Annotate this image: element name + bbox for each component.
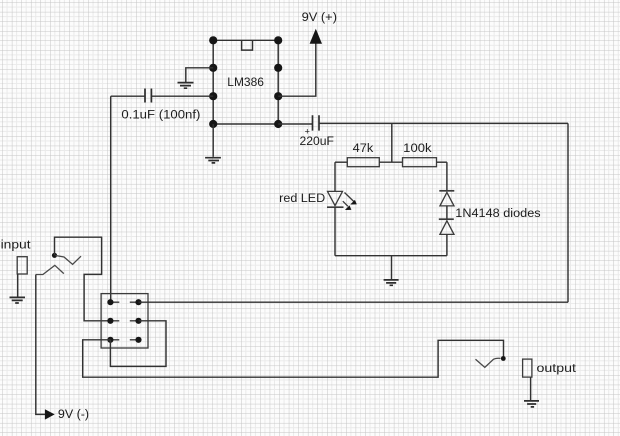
input switch lever (lower) <box>36 265 64 274</box>
wire clipping network bottom <box>335 255 447 257</box>
S1 contact dashes <box>110 302 138 340</box>
svg-text:47k: 47k <box>353 141 374 155</box>
output jack J2 <box>523 359 532 377</box>
wire input switch loop <box>55 237 111 321</box>
bypass switch S1 body <box>101 294 148 348</box>
LED D1 red LED symbol <box>327 191 344 207</box>
pin 6 (right) <box>274 92 282 100</box>
wire LED branch top <box>335 161 347 163</box>
pin 5 (right bottom) <box>274 120 282 128</box>
ground (clipping network) <box>384 280 399 285</box>
wire pin4 to ground <box>212 124 214 157</box>
wire output jack sleeve to ground <box>530 377 532 400</box>
LED light arrow 2 <box>343 201 352 210</box>
input switch contact node <box>52 253 57 258</box>
S1 pole 1 left <box>107 299 113 305</box>
svg-text:input: input <box>1 238 32 252</box>
wire between resistors <box>379 161 402 163</box>
svg-text:100k: 100k <box>403 141 432 155</box>
wire negative rail down <box>36 275 45 415</box>
LED light arrow 1 <box>345 193 357 205</box>
output switch contact node <box>501 356 506 361</box>
svg-text:LM386: LM386 <box>227 75 264 89</box>
pin 7 (right) <box>274 64 282 72</box>
wire cap to long vertical <box>111 95 145 97</box>
wire pin6 to 9V <box>278 43 316 96</box>
resistor R2 100k <box>403 158 437 167</box>
wire pin5 to output cap <box>278 123 312 125</box>
input jack J1 <box>17 257 27 274</box>
resistor R1 47k <box>347 158 379 167</box>
S1 pole 3 right <box>135 337 141 343</box>
wire long vertical to bypass switch <box>110 96 112 302</box>
wire R2 to diode branch <box>437 161 447 163</box>
output switch lever <box>476 358 501 367</box>
wire S1 mid-right to bottom-left (crossover) <box>110 321 166 367</box>
svg-text:output: output <box>537 361 577 375</box>
svg-text:0.1uF (100nf): 0.1uF (100nf) <box>121 108 200 122</box>
9V (-) arrow <box>45 409 55 419</box>
wire diode branch top <box>446 162 448 191</box>
diode D2 1N4148 (top) <box>439 191 454 206</box>
ground (output jack) <box>524 401 539 407</box>
input switch lever (upper) <box>56 256 82 265</box>
wire junction drop to resistors <box>391 123 393 162</box>
wire pin2 to ground <box>186 68 213 82</box>
pin 1 (left top) <box>209 36 217 44</box>
pin 2 (left) <box>209 64 217 72</box>
svg-text:red LED: red LED <box>279 191 325 205</box>
svg-text:9V (+): 9V (+) <box>302 10 337 24</box>
LM386 notch mark <box>242 40 253 50</box>
wire input jack sleeve to ground <box>17 274 19 297</box>
capacitor C1 0.1uF plates <box>145 89 151 103</box>
pin 4 (left bottom) <box>209 120 217 128</box>
diode D3 1N4148 (bottom) <box>439 219 454 234</box>
ground (pin 4) <box>205 158 221 163</box>
pin 3 (left) <box>209 92 217 100</box>
wire pin3 to coupling cap <box>152 95 213 97</box>
wire LED cathode down <box>334 207 336 255</box>
pin 8 (right top) <box>274 36 282 44</box>
S1 pole 3 left <box>107 337 113 343</box>
wire LED anode <box>334 162 336 191</box>
wire network ground stub <box>391 256 393 280</box>
capacitor C2 220uF plates <box>313 115 320 130</box>
S1 pole 1 right <box>135 299 141 305</box>
wire between diodes <box>446 206 448 220</box>
wire diode branch bottom <box>446 234 448 255</box>
ground (input jack) <box>10 297 26 303</box>
wire output cap to right loop <box>319 122 568 124</box>
wire right loop down <box>567 123 569 302</box>
9V (+) arrow <box>310 29 322 44</box>
wire S1 bottom-left to output path <box>83 340 504 377</box>
svg-text:1N4148 diodes: 1N4148 diodes <box>455 206 540 220</box>
ground (pin 2) <box>178 83 194 89</box>
op-amp U1 LM386 body (two pin rails + top/bottom wires) <box>213 40 278 124</box>
S1 pole 2 left <box>107 318 113 324</box>
S1 pole 2 right <box>135 318 141 324</box>
svg-text:9V (-): 9V (-) <box>58 407 89 421</box>
wire S1 top-right to right loop <box>139 301 569 303</box>
svg-text:220uF: 220uF <box>300 134 335 148</box>
